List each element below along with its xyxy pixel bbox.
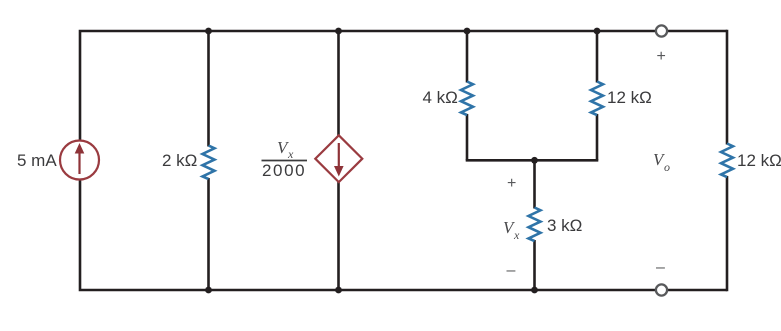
resistor R1 2 kOhm (203, 146, 215, 180)
svg-text:2000: 2000 (262, 161, 306, 180)
junction dot top 4k (464, 28, 471, 35)
wire: right branch upper (726, 30, 729, 145)
svg-text:5 mA: 5 mA (17, 151, 57, 170)
svg-text:3 kΩ: 3 kΩ (547, 216, 582, 235)
svg-text:4 kΩ: 4 kΩ (423, 88, 458, 107)
svg-text:o: o (664, 160, 670, 174)
wire: 12k top branch upper (596, 31, 599, 83)
wire: 4k branch lower (466, 114, 469, 160)
wire: 12k top branch lower (596, 114, 599, 160)
junction dot top dep (335, 28, 342, 35)
label Vx/2000 fraction (262, 138, 308, 180)
svg-text:+: + (507, 175, 516, 192)
node terminal top (open circle) (656, 25, 667, 36)
junction dot bottom dep (335, 287, 342, 294)
svg-text:12 kΩ: 12 kΩ (737, 151, 781, 170)
wire: 3k branch lower (533, 240, 536, 290)
junction dot mid bar (531, 157, 538, 164)
resistor R3 12 kOhm top (591, 82, 603, 116)
node terminal bottom (open circle) (656, 284, 667, 295)
wire: 2k branch lower (207, 178, 210, 290)
junction dot top 12k (594, 28, 601, 35)
junction dot bottom 2k (205, 287, 212, 294)
junction dot top 2k (205, 28, 212, 35)
wire: dependent-source branch (337, 31, 340, 290)
wire: top rail + left branch + bottom rail (80, 31, 727, 290)
svg-text:x: x (513, 228, 520, 242)
svg-text:12 kΩ: 12 kΩ (607, 88, 652, 107)
wire: 3k branch upper (533, 160, 536, 208)
junction dot bottom 3k (531, 287, 538, 294)
wire: right branch lower (726, 176, 729, 291)
wire: 4k branch upper (466, 31, 469, 83)
wire: 2k branch upper (207, 31, 210, 147)
dependent source U1 (Vx/2000) (315, 135, 362, 182)
current source I1 (5 mA) (60, 141, 99, 180)
wire: mid bar (466, 159, 599, 162)
svg-text:–: – (507, 262, 516, 279)
svg-text:2 kΩ: 2 kΩ (162, 151, 197, 170)
resistor R2 4 kOhm (461, 82, 473, 116)
resistor R5 12 kOhm right (721, 144, 733, 178)
svg-text:x: x (287, 147, 294, 161)
resistor R4 3 kOhm (529, 208, 541, 242)
svg-text:+: + (657, 48, 666, 65)
svg-text:–: – (656, 259, 665, 276)
